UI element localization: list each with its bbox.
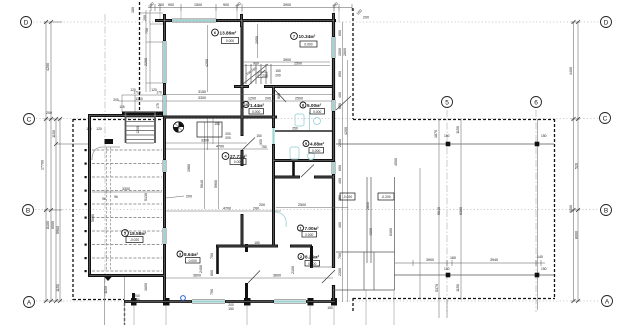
boxed dim 200 stair: [258, 72, 267, 78]
room label 5: [122, 230, 147, 243]
svg-text:150: 150: [214, 122, 220, 126]
grid marker C left: [24, 114, 35, 125]
svg-text:2200: 2200: [144, 58, 148, 66]
svg-text:150: 150: [444, 134, 450, 138]
svg-text:900: 900: [277, 93, 281, 99]
svg-text:B: B: [604, 208, 608, 215]
door swing room 1: [301, 165, 314, 178]
right dimension texts: [569, 67, 579, 239]
svg-text:900: 900: [253, 62, 259, 66]
grid marker A right: [602, 296, 613, 307]
svg-text:1150: 1150: [52, 130, 56, 138]
window north (room 6): [172, 20, 216, 22]
svg-text:650: 650: [338, 30, 342, 36]
right dim ticks: [572, 20, 581, 303]
grid marker C right: [600, 113, 611, 124]
room4 dim line y149: [166, 148, 268, 150]
left terrace dashed west edge: [72, 119, 74, 300]
room label 9: [303, 141, 325, 154]
entry steps dim line: [333, 207, 348, 209]
svg-text:1.44м²: 1.44м²: [250, 103, 265, 108]
svg-text:200: 200: [225, 136, 231, 140]
svg-text:5370: 5370: [435, 284, 439, 292]
svg-text:2800: 2800: [366, 202, 370, 210]
svg-text:3900: 3900: [283, 58, 291, 62]
svg-text:1500: 1500: [194, 3, 202, 7]
svg-text:120: 120: [130, 88, 136, 92]
svg-text:0.000: 0.000: [308, 262, 316, 266]
svg-text:5640: 5640: [200, 180, 204, 188]
svg-text:5690: 5690: [91, 214, 95, 222]
svg-text:120: 120: [96, 127, 102, 131]
porch top slab: [122, 112, 163, 118]
terrace dashed boundary east edge: [554, 119, 556, 299]
svg-text:3150: 3150: [198, 90, 206, 94]
svg-text:700: 700: [210, 253, 214, 259]
interior wall x273: [272, 86, 275, 247]
wall east: [332, 20, 335, 302]
window north frame: [172, 19, 216, 22]
svg-text:1200: 1200: [248, 97, 256, 101]
terrace edge line lower: [394, 274, 554, 276]
svg-text:B: B: [26, 208, 30, 215]
svg-text:3300: 3300: [198, 96, 206, 100]
dim line room6 vertical: [207, 25, 209, 92]
svg-text:650: 650: [338, 71, 342, 77]
svg-text:750: 750: [261, 145, 267, 149]
cyan door in wall x273: [272, 128, 274, 144]
room label 6: [212, 29, 239, 43]
porch dim lines: [118, 95, 163, 112]
terrace post NW: [446, 142, 451, 147]
svg-text:4200: 4200: [205, 59, 209, 67]
svg-text:-0.020: -0.020: [343, 195, 353, 199]
svg-text:4200: 4200: [344, 127, 348, 135]
blue drain circle: [181, 296, 186, 301]
left dimension line outer: [44, 22, 90, 301]
wall stub x311: [310, 246, 313, 268]
svg-text:150: 150: [275, 69, 281, 73]
wall stubs at north tees: [165, 13, 334, 33]
dim 2500 room1: [276, 207, 333, 209]
svg-text:1150: 1150: [456, 126, 460, 134]
svg-text:180: 180: [131, 7, 135, 13]
top dimension chain: [148, 4, 352, 11]
right dimension line: [571, 22, 580, 301]
svg-text:750: 750: [145, 28, 149, 34]
room label 4: [222, 153, 247, 165]
svg-text:8100: 8100: [46, 221, 50, 229]
svg-text:900: 900: [223, 3, 229, 7]
small dim texts below south wall: [228, 303, 333, 311]
dim texts stair hall: [245, 58, 302, 78]
room label 2: [298, 254, 320, 267]
svg-text:150: 150: [254, 241, 260, 245]
room label 7: [291, 33, 317, 47]
terrace post SE: [535, 273, 540, 278]
door swing H3: [249, 70, 265, 85]
svg-text:4200: 4200: [46, 63, 50, 71]
garage bottom wall: [88, 274, 166, 277]
dashed line above porch: [139, 2, 141, 112]
garage joist anchor dots: [85, 149, 87, 272]
svg-text:4.88м²: 4.88м²: [310, 142, 325, 147]
svg-text:6: 6: [534, 100, 538, 107]
left dimension texts: [41, 63, 61, 292]
room4 dim line y143: [166, 142, 247, 144]
svg-text:1500: 1500: [338, 48, 342, 56]
door swing wall x242: [242, 138, 255, 151]
door swing east y100 to terrace: [336, 96, 351, 110]
svg-text:A: A: [605, 299, 610, 306]
room label 3: [177, 251, 200, 263]
west wall window frames: [163, 41, 166, 244]
svg-text:160: 160: [450, 256, 456, 260]
small offset dims top-left: [140, 10, 163, 92]
svg-text:0.000: 0.000: [226, 39, 234, 43]
driveway outline: [92, 147, 120, 160]
svg-text:3300: 3300: [122, 187, 130, 191]
svg-text:2500: 2500: [295, 97, 303, 101]
grid column line 6: [535, 110, 537, 312]
svg-text:150: 150: [228, 307, 234, 311]
grid marker D right: [601, 17, 612, 28]
south wall: [124, 300, 336, 303]
south wall piers: [131, 298, 337, 306]
svg-text:200: 200: [275, 74, 281, 78]
grid line D: [33, 21, 599, 23]
svg-text:0.000: 0.000: [313, 110, 321, 114]
svg-text:900: 900: [168, 3, 174, 7]
svg-text:8.64м²: 8.64м²: [184, 252, 199, 257]
left terrace dashed bottom edge: [73, 299, 124, 301]
svg-text:200: 200: [265, 97, 271, 101]
svg-text:0.000: 0.000: [189, 259, 197, 263]
driveway strip dashed edges: [107, 147, 111, 271]
left dim ticks: [44, 20, 62, 303]
wall H9 y246: [216, 245, 312, 248]
wall north: [155, 19, 336, 22]
svg-text:150: 150: [541, 267, 547, 271]
bottom interior dim line y278: [166, 277, 333, 279]
svg-text:10.34м²: 10.34м²: [299, 34, 316, 39]
left terrace dashed top edge: [73, 119, 163, 121]
bathroom fixtures cyan: [275, 112, 321, 227]
svg-text:150: 150: [327, 306, 333, 310]
svg-text:7.00м²: 7.00м²: [305, 226, 320, 231]
grid line B: [35, 209, 599, 211]
terrace dimension texts: [426, 126, 547, 292]
svg-text:200: 200: [158, 3, 164, 7]
entry steps south-east: [333, 177, 395, 290]
grid marker D left: [21, 17, 32, 28]
hall dim texts: [186, 180, 259, 211]
interior dim texts row y92: [198, 90, 281, 100]
svg-text:200: 200: [253, 207, 259, 211]
svg-text:0.000: 0.000: [304, 43, 312, 47]
svg-text:150: 150: [444, 267, 450, 271]
garage dim texts: [91, 187, 148, 222]
terrace post SW: [446, 273, 451, 278]
svg-text:175: 175: [156, 103, 160, 109]
svg-text:8000: 8000: [575, 231, 579, 239]
svg-text:400: 400: [338, 92, 342, 98]
svg-text:1600: 1600: [144, 283, 148, 291]
svg-text:1980: 1980: [187, 164, 191, 172]
west end wall stub at south: [132, 293, 135, 303]
svg-text:0.000: 0.000: [234, 160, 242, 164]
svg-text:200: 200: [186, 195, 192, 199]
east wall window frames: [332, 37, 335, 174]
svg-text:0.000: 0.000: [252, 110, 260, 114]
svg-text:18.58м²: 18.58м²: [130, 231, 147, 236]
svg-text:0.000: 0.000: [312, 149, 320, 153]
garage top wall: [88, 114, 163, 117]
svg-text:800: 800: [210, 270, 214, 276]
staircase: [246, 64, 271, 84]
hall table rectangle: [197, 122, 222, 137]
svg-text:A: A: [27, 300, 32, 307]
svg-text:200: 200: [143, 15, 147, 21]
wall stub x217: [216, 246, 219, 274]
svg-text:2500: 2500: [298, 203, 306, 207]
svg-text:400: 400: [338, 178, 342, 184]
terrace dashed boundary right top: [352, 8, 354, 119]
grid column line at x105: [104, 14, 106, 300]
grid marker B left: [23, 205, 34, 216]
pier stubs corridor: [272, 108, 275, 127]
grid marker 5: [442, 97, 453, 108]
section mark circle: [173, 122, 183, 132]
svg-text:4700: 4700: [223, 207, 231, 211]
svg-text:150: 150: [541, 134, 547, 138]
svg-text:200: 200: [46, 111, 52, 115]
garage inner dim line: [92, 191, 162, 193]
terrace dim verticals: [420, 119, 538, 318]
svg-text:120: 120: [151, 88, 157, 92]
svg-text:2300: 2300: [338, 268, 342, 276]
bottom interior dim texts: [104, 241, 295, 302]
west wall windows: [164, 41, 166, 244]
wall H5 y160.5: [272, 159, 335, 162]
right inner dim chain x347: [347, 60, 349, 302]
wall west (line 2): [163, 20, 166, 302]
elevation box -0.020 terrace: [340, 193, 355, 200]
terrace bottom dimension line: [395, 260, 545, 266]
garage door triangle: [105, 277, 112, 281]
svg-text:2100: 2100: [291, 266, 295, 274]
grid marker B right: [601, 205, 612, 216]
svg-text:3600: 3600: [193, 274, 201, 278]
svg-text:700: 700: [210, 289, 214, 295]
svg-text:D: D: [24, 20, 29, 27]
svg-text:2800: 2800: [343, 48, 347, 56]
svg-text:5130: 5130: [144, 193, 148, 201]
interior dim line y101: [166, 100, 332, 102]
svg-text:2050: 2050: [255, 36, 259, 44]
svg-text:200: 200: [113, 98, 119, 102]
porch rails: [126, 112, 156, 143]
stair hall dim line y65.5: [244, 65, 330, 67]
svg-text:D: D: [604, 20, 609, 27]
room label 10: [243, 102, 265, 115]
svg-text:10: 10: [244, 102, 249, 107]
dim line room7 vertical: [257, 24, 259, 58]
svg-text:17700: 17700: [41, 160, 45, 170]
svg-text:2500: 2500: [294, 62, 302, 66]
porch steps: [126, 113, 154, 144]
door swing corridor: [273, 88, 286, 102]
svg-text:115: 115: [119, 105, 124, 109]
garage door pier: [105, 139, 114, 144]
east wall door swing to terrace: [322, 270, 335, 283]
svg-text:600: 600: [338, 165, 342, 171]
svg-text:170: 170: [156, 91, 162, 95]
interior dim line room6 bottom: [166, 94, 332, 96]
top extension lines: [160, 8, 339, 22]
grid marker 6: [531, 97, 542, 108]
room label 1: [298, 225, 320, 237]
interior wall x242: [241, 20, 244, 247]
svg-text:700: 700: [338, 253, 342, 259]
svg-text:-0.200: -0.200: [381, 195, 391, 199]
svg-text:520: 520: [575, 163, 579, 169]
svg-text:200: 200: [363, 16, 369, 20]
room label 8: [300, 102, 325, 114]
svg-text:-0.020: -0.020: [130, 238, 140, 242]
svg-text:3940: 3940: [490, 258, 498, 262]
dim texts y99: [248, 97, 303, 101]
svg-text:3900: 3900: [283, 3, 291, 7]
south window frame lines: [192, 300, 306, 303]
svg-text:0.000: 0.000: [305, 233, 313, 237]
svg-text:1150: 1150: [56, 284, 60, 292]
grid line C: [36, 118, 598, 120]
terrace edge line upper: [336, 143, 554, 145]
svg-text:3300: 3300: [201, 139, 209, 143]
svg-text:96: 96: [102, 197, 106, 201]
svg-text:650: 650: [338, 103, 342, 109]
grid column line 5: [446, 110, 448, 312]
stair hall dim line y62: [244, 61, 330, 63]
south windows: [192, 301, 306, 303]
terrace dashed boundary top edge: [353, 119, 555, 121]
driveway edges below garage: [105, 277, 125, 325]
garage hatch joist lines: [92, 150, 162, 271]
svg-text:900: 900: [259, 139, 263, 145]
east wall windows: [333, 37, 335, 174]
grid line A: [36, 300, 600, 302]
terrace dashed boundary bottom edge: [353, 298, 555, 300]
svg-text:5640: 5640: [437, 207, 441, 215]
svg-text:4500: 4500: [394, 158, 398, 166]
svg-text:3900: 3900: [426, 258, 434, 262]
wall H8 y177: [274, 176, 335, 179]
terrace post NE: [535, 142, 540, 147]
svg-text:5.00м²: 5.00м²: [307, 103, 322, 108]
svg-text:4400: 4400: [569, 67, 573, 75]
svg-text:6300: 6300: [459, 207, 463, 215]
svg-text:1870: 1870: [434, 130, 438, 138]
top dimension texts: [131, 2, 369, 34]
svg-text:6300: 6300: [389, 228, 393, 236]
wall H3 y86.5: [234, 85, 333, 88]
svg-text:96: 96: [114, 195, 118, 199]
svg-text:5900: 5900: [56, 226, 60, 234]
svg-text:1200: 1200: [136, 126, 140, 134]
svg-text:C: C: [27, 117, 32, 124]
room4 dim texts: [201, 122, 267, 149]
svg-text:200: 200: [262, 74, 268, 78]
svg-text:6000: 6000: [51, 221, 55, 229]
svg-text:4700: 4700: [216, 145, 224, 149]
elevation box -0.200 terrace: [378, 193, 394, 200]
right inner dim texts: [338, 30, 398, 276]
door swing H9: [248, 271, 260, 284]
svg-text:C: C: [603, 116, 608, 123]
svg-text:5900: 5900: [214, 180, 218, 188]
svg-text:150: 150: [256, 134, 262, 138]
wall white cores (hollow wall rendering): [89, 14, 335, 302]
right inner dim chain x342: [342, 22, 344, 302]
svg-text:3600: 3600: [273, 274, 281, 278]
svg-text:13.86м²: 13.86м²: [220, 31, 237, 36]
extension lines below south wall: [134, 290, 394, 325]
door header line room2: [311, 266, 333, 268]
svg-text:2200: 2200: [338, 139, 342, 147]
svg-text:140: 140: [537, 255, 543, 259]
wall stub x293 between H5 H8: [292, 160, 295, 177]
svg-text:6000: 6000: [569, 205, 573, 213]
svg-text:400: 400: [338, 222, 342, 228]
svg-text:120: 120: [86, 127, 92, 131]
svg-text:200: 200: [259, 203, 265, 207]
wall H4 y117: [163, 116, 277, 119]
svg-text:250: 250: [292, 127, 298, 131]
svg-text:1150: 1150: [104, 286, 108, 294]
svg-text:1150: 1150: [456, 284, 460, 292]
leader line 200: [166, 196, 184, 198]
grid marker A left: [24, 297, 35, 308]
dashed stub below south wall: [124, 303, 126, 325]
partition bathrooms y131: [275, 130, 332, 132]
porch dim texts: [86, 88, 162, 134]
terrace dashed stub down: [352, 298, 354, 313]
svg-text:2400: 2400: [199, 265, 203, 273]
svg-text:1310: 1310: [135, 97, 143, 101]
svg-text:5: 5: [445, 100, 449, 107]
svg-text:8.26м²: 8.26м²: [305, 255, 320, 260]
garage west wall: [88, 114, 91, 277]
wall x246 room2-3 divider: [245, 244, 248, 302]
staircase cut diagonal: [243, 64, 268, 84]
hall dim verticals: [166, 122, 281, 211]
